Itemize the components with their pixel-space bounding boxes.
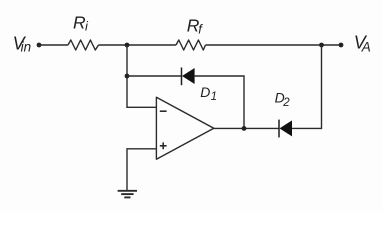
diode D2 [279, 120, 292, 138]
svg-text:D: D [200, 84, 210, 100]
node VA terminal [339, 43, 344, 48]
node A junction (inverting input net, top rail) [125, 43, 130, 48]
op-amp U1 [156, 97, 213, 159]
svg-text:A: A [361, 39, 371, 54]
svg-text:2: 2 [282, 97, 290, 109]
ground [118, 191, 137, 198]
wire node A down to inverting input corner [127, 45, 156, 107]
svg-text:in: in [21, 40, 32, 55]
label D1 [200, 84, 217, 103]
wire noninverting input to ground branch [127, 149, 156, 190]
wire op-amp output to D2 [213, 127, 279, 129]
wire D1 to output node [195, 76, 244, 128]
label Vin [13, 33, 32, 54]
diode D1 [182, 68, 195, 86]
resistor Ri [68, 40, 99, 50]
wire node B to D1 anode-side [127, 75, 182, 77]
wire D2 to VA node [292, 45, 322, 128]
node VA junction [319, 43, 324, 48]
wire Vin to Ri [39, 44, 68, 46]
label VA [354, 33, 371, 55]
wire Ri to Rf through node A [99, 44, 177, 46]
resistor Rf [176, 40, 206, 50]
wire Rf to VA node [206, 44, 342, 46]
label D2 [275, 90, 291, 110]
node Vin terminal [37, 43, 42, 48]
svg-text:1: 1 [211, 91, 217, 103]
label Rf [187, 16, 204, 37]
node C junction (op-amp output) [242, 126, 247, 131]
node B junction (D1 branch tap) [125, 74, 130, 79]
label Ri [73, 13, 89, 34]
